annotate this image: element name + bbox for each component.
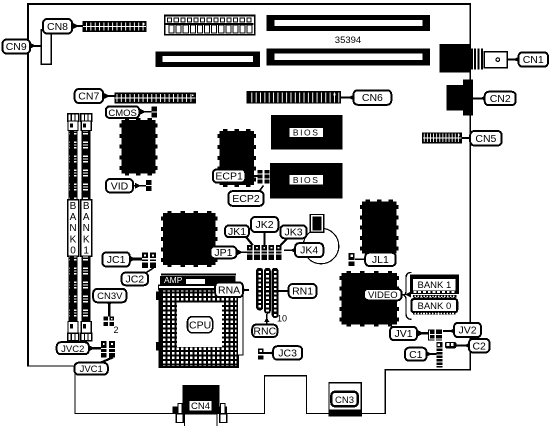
- label JK3 + leader: [280, 225, 306, 245]
- board outline: [27, 3, 471, 414]
- connector CN3: [329, 383, 361, 416]
- IC I/O controller: [217, 129, 256, 187]
- jumper VID: [146, 180, 152, 191]
- svg-text:RN1: RN1: [292, 286, 313, 298]
- label JK1 + leader: [225, 225, 253, 245]
- label CN9 + leader: [3, 40, 43, 54]
- label C2 + leader: [456, 339, 489, 353]
- jumpers JVC2: [101, 341, 115, 358]
- resistor pack RNC: [264, 268, 271, 314]
- svg-text:CN1: CN1: [523, 54, 544, 66]
- svg-text:JVC1: JVC1: [80, 364, 103, 375]
- svg-text:CN3V: CN3V: [97, 291, 123, 302]
- label JV2 + leader: [443, 323, 481, 337]
- label VID + leader: [106, 179, 147, 192]
- svg-text:JP1: JP1: [214, 247, 232, 259]
- label CN7 + leader: [75, 89, 116, 103]
- connector CN2: [447, 79, 473, 115]
- svg-text:1: 1: [83, 246, 89, 257]
- jumper block ECP: [258, 170, 270, 184]
- jumpers JC1: [142, 253, 156, 268]
- label JVC1 + leader: [75, 357, 114, 375]
- label RNC + leader: [252, 314, 277, 338]
- svg-text:JK1: JK1: [228, 226, 246, 238]
- svg-text:35394: 35394: [335, 35, 361, 46]
- svg-text:K: K: [83, 234, 90, 245]
- label CN3: [331, 392, 357, 406]
- bar below AMP: [159, 285, 236, 289]
- battery: [303, 215, 339, 264]
- svg-text:CPU: CPU: [189, 319, 211, 331]
- label RN1 + leader: [278, 284, 316, 298]
- label ECP2 + leader: [228, 186, 263, 206]
- svg-text:JV1: JV1: [394, 328, 412, 340]
- IC keyboard controller: [119, 118, 157, 175]
- svg-text:JK4: JK4: [300, 245, 318, 257]
- SIMM socket BANK0: [68, 114, 79, 341]
- IC video: [340, 271, 399, 327]
- label CPU: [188, 317, 213, 333]
- ISA slot upper right: [266, 15, 430, 31]
- label RNA + leader: [215, 282, 249, 297]
- label CN8 + leader: [43, 19, 84, 34]
- svg-text:ECP1: ECP1: [215, 171, 243, 183]
- resistor pack RN1: [272, 268, 279, 318]
- label JL1 + leader: [355, 253, 396, 266]
- svg-text:BIOS: BIOS: [293, 128, 320, 138]
- label CN1 + leader: [507, 52, 548, 66]
- connector CN8 pin header: [83, 22, 146, 32]
- svg-text:JL1: JL1: [372, 254, 389, 266]
- capacitor array C1: [436, 342, 442, 367]
- resistor pack RNA: [256, 268, 263, 311]
- text 10: [277, 314, 287, 324]
- label CN2 + leader: [473, 92, 516, 106]
- connector CN4: [173, 385, 228, 426]
- svg-text:BIOS: BIOS: [293, 175, 320, 185]
- label ECP1 + leader: [213, 169, 258, 182]
- svg-text:JC1: JC1: [107, 254, 126, 266]
- svg-text:CN4: CN4: [191, 401, 210, 412]
- jumper JL1: [349, 253, 355, 266]
- svg-text:CMOS: CMOS: [108, 108, 137, 119]
- label CMOS + leader: [106, 106, 152, 119]
- svg-text:JK3: JK3: [284, 227, 302, 239]
- svg-text:A: A: [70, 212, 77, 223]
- connector CN7 pin header: [115, 93, 195, 102]
- text 2: [113, 325, 118, 335]
- svg-text:K: K: [70, 234, 77, 245]
- svg-text:RNC: RNC: [253, 325, 276, 337]
- label CN5 + leader: [462, 131, 502, 146]
- label JC2 + leader: [122, 268, 154, 286]
- label VIDEO + leader: [364, 289, 411, 301]
- svg-text:VID: VID: [111, 180, 129, 192]
- SRAM BANK 1: [410, 275, 459, 295]
- voltage regulator AMP bar: [160, 274, 236, 286]
- svg-text:0: 0: [70, 246, 76, 257]
- label JC3 + leader: [263, 346, 302, 359]
- IC chipset: [161, 211, 218, 267]
- jumper CN3V: [103, 317, 114, 326]
- connector CN1: [440, 44, 508, 72]
- svg-text:A: A: [83, 212, 90, 223]
- svg-text:CN3: CN3: [335, 395, 354, 406]
- svg-text:B: B: [83, 201, 90, 212]
- svg-text:2: 2: [113, 325, 118, 335]
- jumper CMOS: [151, 106, 157, 117]
- SIMM socket BANK1: [81, 114, 92, 341]
- jumper strips JP1/JK: [247, 245, 281, 260]
- svg-text:AMP: AMP: [164, 275, 183, 285]
- connector CN6 pin header: [247, 92, 340, 103]
- svg-text:B: B: [70, 201, 77, 212]
- svg-text:CN5: CN5: [475, 133, 496, 145]
- label CN6 + leader: [340, 90, 391, 105]
- svg-text:CN8: CN8: [47, 21, 68, 33]
- connector CN5: [423, 133, 462, 143]
- svg-text:BANK 0: BANK 0: [418, 301, 452, 312]
- svg-text:BANK 1: BANK 1: [418, 280, 452, 291]
- BIOS chip 2: [270, 163, 343, 199]
- svg-text:JVC2: JVC2: [61, 344, 84, 355]
- svg-text:JK2: JK2: [256, 219, 274, 231]
- svg-text:10: 10: [277, 314, 287, 324]
- svg-text:N: N: [83, 223, 90, 234]
- svg-text:CN9: CN9: [6, 41, 27, 53]
- connector CN9 body: [41, 30, 51, 64]
- label C1 + leader: [405, 348, 437, 361]
- svg-text:C2: C2: [472, 340, 486, 352]
- label JC1 + leader: [102, 252, 143, 266]
- svg-text:CN6: CN6: [362, 92, 383, 104]
- SRAM BANK 0: [412, 299, 458, 312]
- label CN4: [189, 400, 212, 412]
- ISA slot lower right: [266, 49, 430, 66]
- svg-text:RNA: RNA: [218, 284, 240, 296]
- label JV1 + leader: [390, 327, 430, 340]
- svg-text:JV2: JV2: [458, 325, 476, 337]
- label JP1 + leader: [210, 247, 247, 260]
- label JK4 + leader: [284, 243, 323, 257]
- socket strip BANK0: [413, 312, 456, 314]
- label JVC2 + leader: [57, 342, 102, 355]
- svg-text:N: N: [69, 223, 76, 234]
- svg-text:JC3: JC3: [278, 348, 297, 360]
- CPU socket: [156, 289, 243, 367]
- power connector: [165, 15, 255, 34]
- svg-text:C1: C1: [409, 349, 423, 361]
- capacitor C2: [445, 342, 456, 348]
- ISA slot lower left: [155, 51, 260, 67]
- socket strip BANK1: [413, 295, 456, 299]
- svg-text:ECP2: ECP2: [232, 193, 260, 205]
- label CN3V + leader: [93, 289, 126, 317]
- jumper JC3: [258, 348, 264, 359]
- svg-text:CN2: CN2: [490, 93, 511, 105]
- svg-text:CN7: CN7: [78, 91, 99, 103]
- jumpers JV: [428, 329, 442, 340]
- svg-text:JC2: JC2: [125, 274, 144, 286]
- label JK2 + leader: [251, 217, 278, 245]
- BIOS chip 1: [271, 115, 343, 149]
- brace: [404, 272, 412, 319]
- text 35394: [335, 35, 361, 46]
- IC right of BIOS: [360, 200, 398, 256]
- svg-text:VIDEO: VIDEO: [368, 290, 398, 301]
